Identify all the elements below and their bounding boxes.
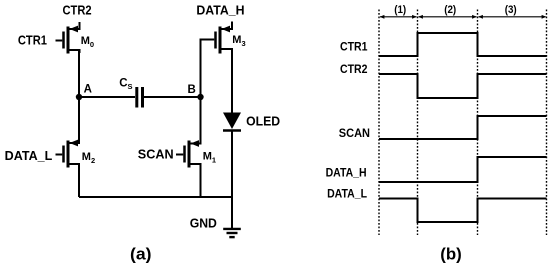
waveform DATA_H [379,157,547,182]
waveform CTR2 [379,74,547,98]
svg-text:(1): (1) [394,4,406,16]
transistor M0 [56,22,80,54]
wire OLED cathode to ground rail [231,131,233,198]
svg-text:CTR2: CTR2 [63,3,92,17]
svg-text:OLED: OLED [246,114,280,128]
phase boundary dotted line 4 [546,10,548,236]
svg-text:(3): (3) [505,4,517,16]
waveform CTR1 [379,33,547,56]
wire M3 source to OLED anode [231,50,233,113]
phase arrow (2) [418,15,477,19]
wire capacitor to node B [144,96,201,98]
svg-text:DATA_L: DATA_L [5,149,53,163]
waveform SCAN [379,116,547,139]
node B [197,94,203,100]
ground [223,229,241,237]
wire node A to M2 drain [78,97,80,143]
svg-text:A: A [84,84,92,96]
ground rail wire [79,196,232,198]
svg-text:CTR2: CTR2 [340,64,368,76]
phase boundary dotted line 2 [417,10,419,236]
capacitor Cs [137,87,143,108]
svg-text:SCAN: SCAN [138,148,174,162]
wire node B to M1 drain [200,97,202,144]
svg-text:DATA_L: DATA_L [327,188,367,200]
wire M0 source to node A [78,51,80,97]
diode OLED [223,113,241,131]
svg-text:B: B [188,84,196,96]
phase boundary dotted line 1 [378,10,380,236]
svg-text:(a): (a) [130,245,152,264]
svg-text:SCAN: SCAN [339,128,370,140]
svg-text:CTR1: CTR1 [18,33,47,47]
transistor M1 [176,140,201,167]
phase arrow (1) [380,15,417,19]
wire M2 source to rail [78,165,80,197]
wire rail to ground symbol [231,197,233,228]
svg-text:(2): (2) [444,4,456,16]
svg-text:DATA_H: DATA_H [196,4,244,18]
phase arrow (3) [478,15,546,19]
wire M1 source to rail [200,165,202,197]
transistor M3 [216,22,233,54]
waveform DATA_L [379,199,547,223]
svg-text:GND: GND [190,217,217,231]
svg-text:DATA_H: DATA_H [326,167,367,179]
wire M3 gate to node B [201,40,215,98]
wire node A to capacitor [79,96,135,98]
node A [76,94,82,100]
transistor M2 [56,140,80,168]
svg-text:CTR1: CTR1 [340,42,368,54]
phase boundary dotted line 3 [477,10,479,236]
svg-text:(b): (b) [440,245,462,264]
